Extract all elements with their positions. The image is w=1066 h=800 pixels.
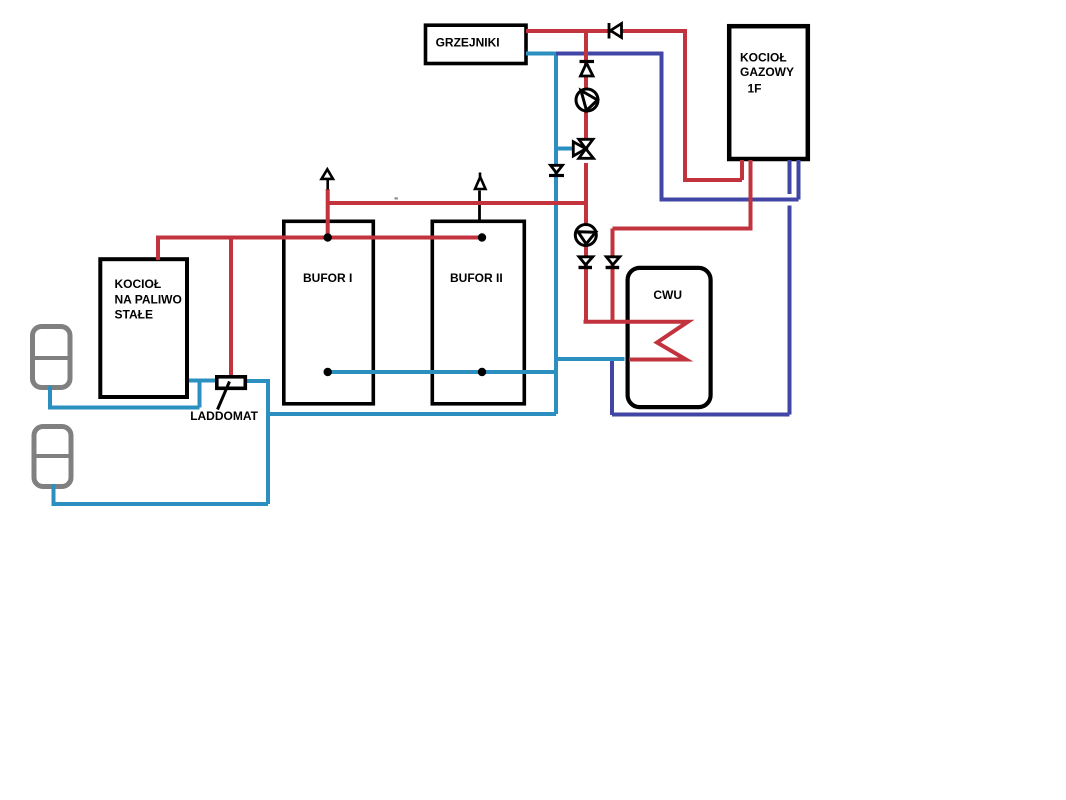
wire red vent stem into BUFOR I [326, 189, 330, 238]
svg-text:STAŁE: STAŁE [115, 308, 153, 322]
wire cyan run y=407.5 [48, 406, 200, 410]
wire cyan up to boiler outlet [198, 381, 202, 408]
svg-text:CWU: CWU [653, 288, 682, 302]
wire blue up to gas boiler x=798.5 [797, 160, 801, 200]
red pipes [156, 29, 753, 377]
LADDOMAT unit [217, 377, 246, 389]
box KOCIOL GAZOWY 1F (gas boiler) [729, 26, 808, 159]
wire red drop x=612.5 to CWU coil [611, 229, 615, 322]
boxes layer [100, 25, 808, 407]
wire red riser bottom x=586 [584, 163, 588, 322]
wire cyan LADDOMAT to right riser [245, 379, 268, 383]
wire red run y=180 [683, 178, 742, 182]
wire blue bottom run y=414 [612, 413, 790, 417]
wire cyan right riser x=268 [266, 379, 270, 504]
heating coil in CWU [584, 322, 689, 360]
wire red run y=228.5 [613, 227, 753, 231]
wire blue from riser to gas boiler top run y=53.5 [556, 52, 662, 56]
wire blue run y=199.5 [660, 198, 799, 202]
pump P1 (circle with impeller triangle) [576, 89, 598, 111]
wire cyan from expansion vessel 1 [48, 386, 52, 408]
wire cyan branch to mixing valve [556, 147, 575, 151]
valve V2 left of CWU [606, 257, 620, 268]
valve V1 left of CWU [579, 257, 593, 268]
air vent above BUFOR II [475, 173, 486, 190]
svg-text:GAZOWY: GAZOWY [740, 65, 794, 79]
3-way mixing valve [573, 139, 593, 158]
svg-text:KOCIOŁ: KOCIOŁ [115, 277, 162, 291]
wire cyan up to expansion vessel 2 [52, 484, 56, 506]
node BUFOR II bottom [478, 368, 486, 376]
node BUFOR I bottom [324, 368, 332, 376]
wire cyan lower header y=414 [268, 412, 556, 416]
expansion vessel 1 [31, 327, 71, 388]
box BUFOR II (buffer tank 2) [432, 221, 524, 403]
LADDOMAT pointer line [218, 382, 230, 410]
node BUFOR I top [324, 233, 332, 241]
wire cyan boiler to LADDOMAT [189, 379, 217, 383]
box BUFOR I (buffer tank 1) [284, 221, 374, 403]
wire red drop x=685 [683, 29, 687, 180]
wire red up to gas boiler x=742 [740, 160, 744, 180]
wire cyan buffer bottoms header y=372 [328, 370, 556, 374]
expansion vessel 2 [33, 427, 73, 487]
wire cyan return from GRZEJNIKI [526, 52, 556, 56]
stray mark [395, 197, 398, 199]
node BUFOR II top [478, 233, 486, 241]
pump P2 (near CWU) [575, 225, 596, 246]
safety valve on riser [580, 62, 595, 77]
wire red header y=203 [330, 201, 589, 205]
svg-text:NA PALIWO: NA PALIWO [115, 293, 182, 307]
wire cyan branch to CWU coil bottom [556, 357, 625, 361]
svg-text:GRZEJNIKI: GRZEJNIKI [436, 36, 500, 50]
wire blue up to cyan junction x=611.5 [610, 361, 614, 415]
wire cyan main riser x=556 [554, 52, 558, 415]
svg-text:1F: 1F [748, 82, 762, 96]
box KOCIOL NA PALIWO STALE (solid fuel boiler) [100, 259, 187, 397]
box GRZEJNIKI (radiators) [426, 25, 527, 63]
wire blue vertical from gas boiler x=789.5 lower [788, 206, 792, 415]
check valve on radiator supply [609, 23, 622, 39]
cyan pipes [48, 52, 625, 507]
wire cyan bottom run y=504 [52, 502, 269, 506]
vent pipe above BUFOR II (black stem under red line) [478, 191, 481, 221]
wire blue drop x=661.5 [660, 52, 664, 200]
svg-text:KOCIOŁ: KOCIOŁ [740, 51, 787, 65]
wire blue vertical from gas boiler x=789.5 upper [788, 160, 792, 194]
svg-text:BUFOR II: BUFOR II [450, 271, 503, 285]
wire red riser top x=586 [584, 31, 588, 139]
valve on cyan riser [549, 165, 564, 175]
wire red from gas boiler x=750.5 [749, 160, 753, 229]
wire red down to solid fuel boiler x=158 [156, 238, 160, 261]
air vent above BUFOR I [322, 169, 334, 189]
dark blue pipes [556, 52, 799, 416]
svg-text:BUFOR I: BUFOR I [303, 271, 352, 285]
svg-text:LADDOMAT: LADDOMAT [190, 409, 258, 423]
tank CWU (domestic hot water tank) [628, 268, 711, 407]
wire red header y=237.5 [156, 236, 484, 240]
wire red down to LADDOMAT x=231 [229, 236, 233, 378]
wire red GRZEJNIKI supply y=31 [526, 29, 685, 33]
